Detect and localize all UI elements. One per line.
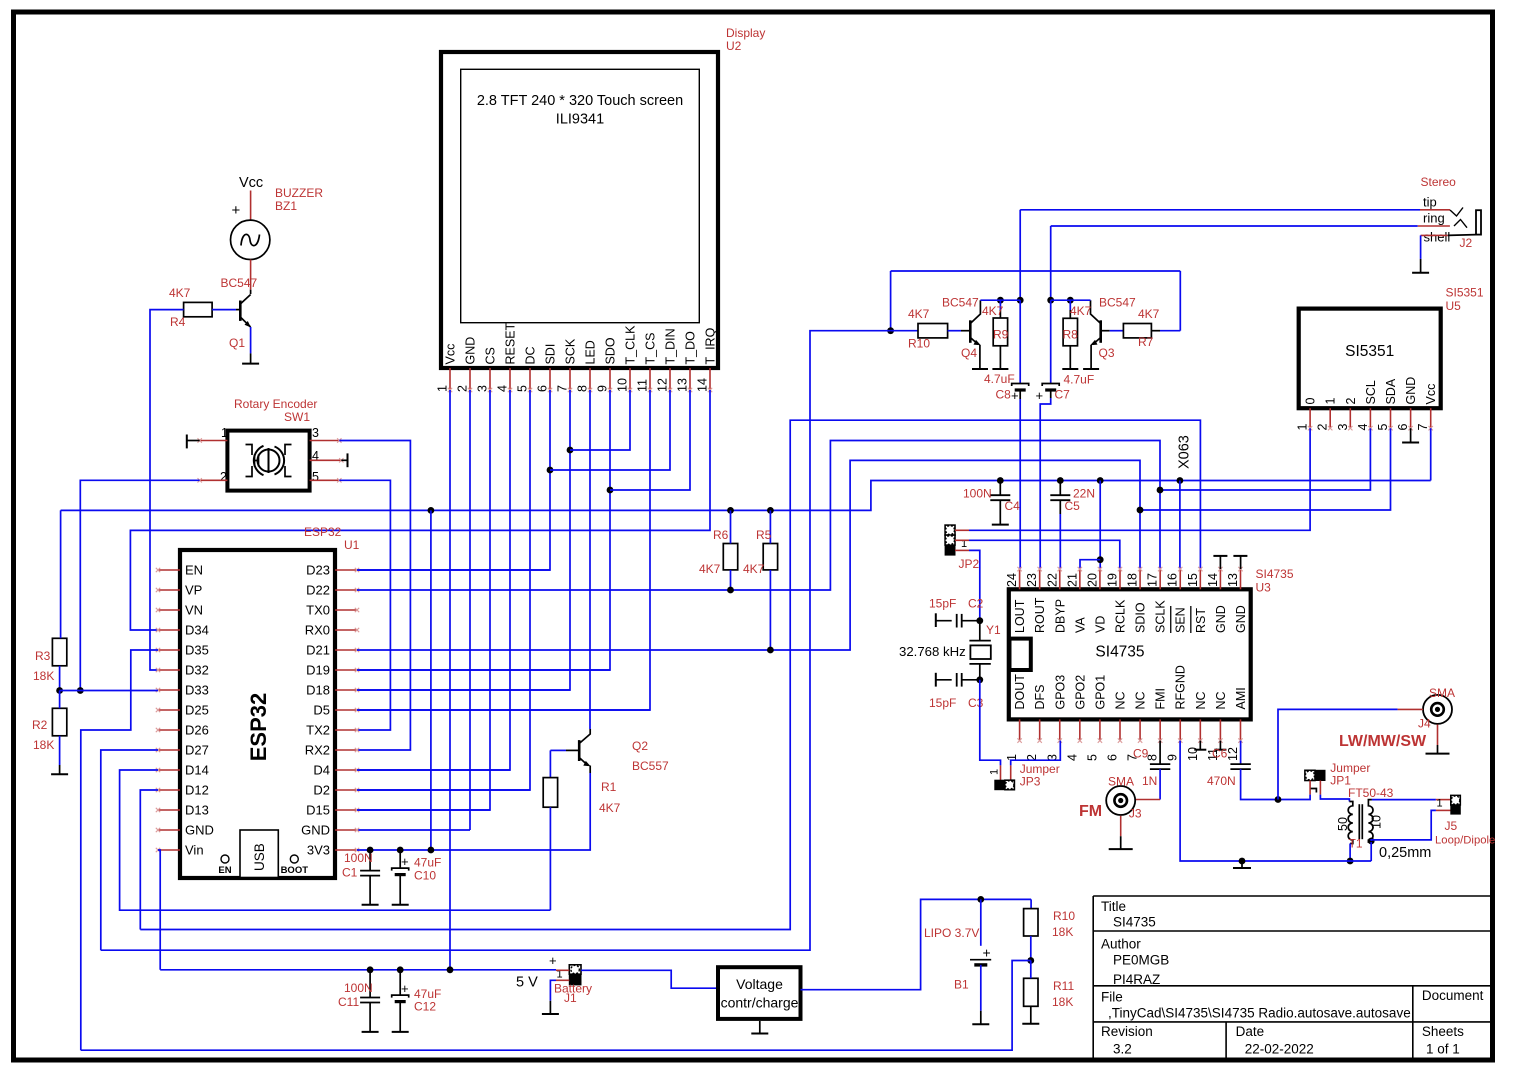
wire GPO3 to JP3 pin2 bbox=[1011, 741, 1061, 766]
display pin 6 SDI bbox=[549, 368, 551, 390]
svg-text:24: 24 bbox=[1005, 573, 1019, 587]
svg-text:4: 4 bbox=[1065, 754, 1079, 761]
svg-text:TX0: TX0 bbox=[306, 603, 330, 618]
ESP32 left pin GND bbox=[158, 829, 180, 831]
svg-text:4: 4 bbox=[1356, 424, 1370, 431]
svg-text:File: File bbox=[1101, 990, 1123, 1005]
wire 5V bus bbox=[160, 969, 556, 971]
svg-text:SW1: SW1 bbox=[284, 410, 310, 424]
svg-text:4.7uF: 4.7uF bbox=[1064, 373, 1095, 387]
svg-text:2: 2 bbox=[1344, 398, 1358, 405]
svg-text:SCL: SCL bbox=[1364, 380, 1378, 404]
capacitor C5 bbox=[1059, 481, 1061, 496]
wire JP1 right pin to T1 primary bbox=[1320, 795, 1349, 802]
svg-text:VP: VP bbox=[185, 583, 202, 598]
display pin 2 GND bbox=[469, 368, 471, 390]
svg-text:GND: GND bbox=[301, 823, 330, 838]
svg-text:D13: D13 bbox=[185, 803, 209, 818]
svg-text:2: 2 bbox=[220, 470, 227, 484]
SI5351 pin 6 GND bbox=[1410, 408, 1412, 428]
svg-text:+: + bbox=[1011, 388, 1019, 403]
wire display CS to D15 bbox=[357, 390, 490, 810]
svg-text:T_IRQ: T_IRQ bbox=[704, 327, 718, 364]
svg-text:ROUT: ROUT bbox=[1033, 597, 1047, 633]
svg-text:C5: C5 bbox=[1065, 499, 1081, 513]
capacitor C4 bbox=[999, 481, 1001, 496]
svg-text:C1: C1 bbox=[342, 866, 358, 880]
wire R5 to D21 row bbox=[769, 570, 771, 650]
ground below J2 bbox=[1420, 259, 1422, 273]
wire R3 to divider mid bbox=[59, 666, 61, 691]
SI4735 pin 14 GND bbox=[1219, 569, 1221, 589]
wire Q4 collector bus bbox=[980, 299, 1020, 301]
wire Vcc to buzzer bbox=[250, 191, 252, 221]
jumper JP1 bbox=[1305, 770, 1315, 780]
wire D27 to Q4 base net bbox=[101, 750, 158, 950]
svg-text:R1: R1 bbox=[601, 780, 617, 794]
ground below R9 bbox=[992, 368, 1008, 370]
svg-text:2: 2 bbox=[456, 385, 470, 392]
svg-text:D21: D21 bbox=[306, 643, 330, 658]
svg-text:Document: Document bbox=[1422, 988, 1484, 1003]
svg-text:9: 9 bbox=[596, 385, 610, 392]
svg-text:1: 1 bbox=[436, 385, 450, 392]
svg-text:GPO2: GPO2 bbox=[1073, 675, 1087, 710]
svg-text:R11: R11 bbox=[1053, 979, 1074, 993]
junction divider mid bbox=[56, 687, 63, 694]
svg-text:12: 12 bbox=[656, 378, 670, 392]
svg-text:13: 13 bbox=[676, 378, 690, 392]
junction T1 secondary bottom bbox=[1368, 838, 1375, 845]
svg-text:DC: DC bbox=[524, 346, 538, 364]
ESP32 left pin D14 bbox=[158, 769, 180, 771]
svg-text:D32: D32 bbox=[185, 663, 209, 678]
svg-text:GND: GND bbox=[185, 823, 214, 838]
svg-text:NC: NC bbox=[1194, 691, 1208, 709]
wire buzzer to Q1 collector bbox=[250, 260, 252, 290]
SI4735 pin 21 VA bbox=[1079, 569, 1081, 589]
svg-text:ESP32: ESP32 bbox=[246, 693, 271, 762]
svg-text:D19: D19 bbox=[306, 663, 330, 678]
wire JP2 pin2 to RCLK bbox=[969, 540, 1120, 569]
svg-text:BC547: BC547 bbox=[942, 296, 979, 310]
svg-text:SI4735: SI4735 bbox=[1095, 644, 1144, 661]
svg-text:BC557: BC557 bbox=[632, 759, 669, 773]
wire D35 to battery sense line bbox=[81, 650, 158, 1050]
svg-text:D33: D33 bbox=[185, 683, 209, 698]
SI5351 pin 3 2 bbox=[1349, 408, 1351, 428]
svg-text:C4: C4 bbox=[1005, 499, 1021, 513]
SI4735 pin 12 AMI bbox=[1239, 719, 1241, 740]
display pin 4 RESET bbox=[509, 368, 511, 390]
svg-text:T_CS: T_CS bbox=[644, 333, 658, 365]
svg-text:DOUT: DOUT bbox=[1013, 674, 1027, 710]
svg-text:SMA: SMA bbox=[1108, 775, 1134, 789]
ESP32 right pin 3V3 bbox=[335, 849, 357, 851]
transistor Q3 bbox=[1101, 330, 1110, 332]
wire RFGND bus bbox=[1180, 741, 1371, 861]
capacitor C12 bbox=[399, 970, 401, 995]
wire Q4/Q3 base bus bbox=[891, 270, 1181, 272]
svg-text:LOUT: LOUT bbox=[1013, 599, 1027, 633]
svg-text:15pF: 15pF bbox=[929, 696, 956, 710]
wire D23 to SDI column bbox=[357, 569, 550, 571]
svg-text:U5: U5 bbox=[1446, 299, 1462, 313]
svg-text:R8: R8 bbox=[1063, 328, 1079, 342]
ESP32 right pin TX0 bbox=[335, 609, 357, 611]
svg-text:SDA: SDA bbox=[1384, 378, 1398, 404]
SMA connector J4 bbox=[1423, 695, 1452, 724]
svg-text:R10: R10 bbox=[1053, 909, 1075, 923]
svg-text:6: 6 bbox=[536, 385, 550, 392]
svg-text:T_DIN: T_DIN bbox=[664, 328, 678, 364]
svg-text:GND: GND bbox=[1234, 605, 1248, 633]
wire SI5351 SCL to SCLK net bbox=[1160, 428, 1370, 490]
display pin 11 T_CS bbox=[649, 368, 651, 390]
junction SCK/T_CLK bbox=[567, 447, 574, 454]
svg-text:SI4735: SI4735 bbox=[1113, 915, 1156, 930]
ESP32 right pin D5 bbox=[335, 709, 357, 711]
display pin 1 Vcc bbox=[449, 368, 451, 390]
junction 3V3/C4 bbox=[997, 477, 1004, 484]
svg-text:D15: D15 bbox=[306, 803, 330, 818]
ESP32 right pin D2 bbox=[335, 789, 357, 791]
ESP32 left pin D26 bbox=[158, 729, 180, 731]
transformer T1 FT50-43 bbox=[1348, 802, 1353, 844]
ESP32 right pin TX2 bbox=[335, 729, 357, 731]
capacitor C6 bbox=[1240, 741, 1242, 765]
svg-text:Stereo: Stereo bbox=[1421, 175, 1457, 189]
ground bars above SI4735 GND pins bbox=[1213, 555, 1227, 557]
wire ESP32 GND right to GND column bbox=[357, 829, 470, 831]
svg-text:14: 14 bbox=[696, 378, 710, 392]
SI4735 pin 1 DOUT bbox=[1019, 719, 1021, 740]
wire display SCK to D18 bbox=[357, 390, 570, 690]
SI4735 pin 18 SDIO bbox=[1139, 569, 1141, 589]
svg-text:D35: D35 bbox=[185, 643, 209, 658]
display pin 9 SDO bbox=[609, 368, 611, 390]
svg-text:USB: USB bbox=[252, 843, 267, 871]
svg-text:BC547: BC547 bbox=[221, 276, 258, 290]
resistor R3 bbox=[52, 638, 66, 666]
SI4735 pin 19 RCLK bbox=[1119, 569, 1121, 589]
SI5351 U5 body bbox=[1299, 309, 1441, 409]
capacitor C8 bbox=[1019, 300, 1021, 383]
SI4735 pin 4 GPO2 bbox=[1079, 719, 1081, 740]
wire C5 to DBYP bbox=[1059, 500, 1061, 514]
wire D19 to SDO column bbox=[357, 669, 610, 671]
resistor R9 bbox=[999, 300, 1001, 310]
svg-text:,TinyCad\SI4735\SI4735 Radio.a: ,TinyCad\SI4735\SI4735 Radio.autosave.au… bbox=[1108, 1006, 1411, 1021]
wire crystal bottom to JP3 pin1 bbox=[980, 680, 1001, 766]
no-connect bars below NC pins 10 11 bbox=[1199, 741, 1201, 750]
svg-text:ILI9341: ILI9341 bbox=[556, 112, 604, 128]
wire D2 to DC column bbox=[357, 789, 530, 791]
SI4735 pin 2 DFS bbox=[1039, 719, 1041, 740]
junction 3V3/SEN bbox=[1177, 477, 1184, 484]
wire T_DO to SDO bbox=[610, 390, 690, 490]
svg-text:B1: B1 bbox=[954, 978, 969, 992]
wire 3V3 row bbox=[357, 773, 590, 850]
svg-text:Display: Display bbox=[726, 26, 765, 40]
svg-text:J2: J2 bbox=[1460, 236, 1473, 250]
svg-text:4K7: 4K7 bbox=[699, 562, 721, 576]
ESP32 left pin VN bbox=[158, 609, 180, 611]
svg-text:100N: 100N bbox=[344, 851, 373, 865]
SI4735 pin 13 GND bbox=[1239, 569, 1241, 589]
svg-text:16: 16 bbox=[1166, 573, 1180, 587]
junction 5V/display Vcc bbox=[447, 966, 454, 973]
svg-text:LIPO 3.7V: LIPO 3.7V bbox=[924, 926, 979, 940]
wire T1 primary to RFGND bbox=[1349, 844, 1351, 862]
JP2 pin stubs bbox=[955, 529, 969, 531]
svg-text:+: + bbox=[983, 945, 991, 961]
capacitor C1 bbox=[369, 850, 371, 871]
ground below SI5351 GND bbox=[1410, 428, 1412, 442]
svg-text:R6: R6 bbox=[713, 528, 729, 542]
ground below Q3 bbox=[1083, 368, 1099, 370]
ESP32 right pin D4 bbox=[335, 769, 357, 771]
SMA connector J3 bbox=[1106, 786, 1135, 815]
transistor Q2 bbox=[578, 740, 581, 761]
svg-text:SDI: SDI bbox=[544, 344, 558, 365]
ground below R8 bbox=[1062, 368, 1078, 370]
wire display SDO to D19 bbox=[357, 390, 610, 670]
wire D21 to R5 and SDIO net bbox=[357, 460, 1140, 650]
svg-text:4K7: 4K7 bbox=[743, 562, 765, 576]
junction 3V3/C1 bbox=[367, 847, 374, 854]
svg-text:19: 19 bbox=[1106, 573, 1120, 587]
svg-text:C6: C6 bbox=[1212, 747, 1228, 761]
svg-text:SCLK: SCLK bbox=[1154, 600, 1168, 633]
svg-text:Q4: Q4 bbox=[961, 346, 977, 360]
wire R1 to D14 line bbox=[549, 807, 551, 910]
svg-text:5: 5 bbox=[312, 470, 319, 484]
wire display T_IRQ to D34 bbox=[130, 390, 710, 630]
wire SI5351 Vcc to 3V3 bbox=[1430, 428, 1432, 480]
svg-text:C7: C7 bbox=[1055, 388, 1071, 402]
svg-text:2.8 TFT 240 * 320 Touch screen: 2.8 TFT 240 * 320 Touch screen bbox=[477, 93, 683, 109]
ESP32 right pin D15 bbox=[335, 809, 357, 811]
svg-text:+: + bbox=[549, 953, 557, 968]
svg-text:9: 9 bbox=[1166, 754, 1180, 761]
display U2 body bbox=[441, 52, 718, 368]
svg-text:10: 10 bbox=[1370, 815, 1384, 829]
svg-text:GND: GND bbox=[1404, 377, 1418, 405]
svg-text:D14: D14 bbox=[185, 763, 209, 778]
svg-text:R10: R10 bbox=[908, 337, 930, 351]
wire J5 pin2 to T1 secondary bottom bbox=[1371, 810, 1436, 841]
SI4735 pin 10 NC bbox=[1199, 719, 1201, 740]
svg-text:4K7: 4K7 bbox=[908, 307, 930, 321]
wire JP1 left pin to AM node bbox=[1304, 795, 1310, 800]
wire divider mid to D35 sense line bbox=[81, 961, 1031, 1051]
wire T_DIN to SDI bbox=[550, 390, 670, 470]
svg-text:SI5351: SI5351 bbox=[1345, 343, 1394, 360]
wire D12 to RST net bbox=[140, 790, 158, 930]
ESP32 left pin D12 bbox=[158, 789, 180, 791]
ESP32 right pin D23 bbox=[335, 569, 357, 571]
junction 3V3/VD column bbox=[1097, 477, 1104, 484]
display pin 7 SCK bbox=[569, 368, 571, 390]
resistor R11 18K bbox=[1024, 978, 1038, 1006]
svg-text:Revision: Revision bbox=[1101, 1024, 1153, 1039]
svg-text:Vcc: Vcc bbox=[239, 175, 263, 191]
svg-text:15: 15 bbox=[1186, 573, 1200, 587]
SI4735 pin 9 RFGND bbox=[1179, 719, 1181, 740]
ESP32 right pin D22 bbox=[335, 589, 357, 591]
ESP32 right pin D21 bbox=[335, 649, 357, 651]
wire display RESET to D4 bbox=[357, 390, 510, 770]
ESP32 right pin D19 bbox=[335, 669, 357, 671]
svg-text:D23: D23 bbox=[306, 563, 330, 578]
wire J3 to ground bbox=[1120, 816, 1122, 836]
svg-text:SEN: SEN bbox=[1174, 607, 1188, 633]
junction Q4 base / D27 net bbox=[887, 327, 894, 334]
svg-text:R7: R7 bbox=[1138, 335, 1154, 349]
display pin 14 T_IRQ bbox=[709, 368, 711, 390]
svg-text:SDIO: SDIO bbox=[1134, 602, 1148, 633]
svg-text:100N: 100N bbox=[963, 487, 992, 501]
display pin 5 DC bbox=[529, 368, 531, 390]
svg-text:NC: NC bbox=[1214, 691, 1228, 709]
svg-text:VA: VA bbox=[1073, 617, 1087, 633]
junction D21/R5 bbox=[767, 647, 774, 654]
svg-text:J3: J3 bbox=[1129, 807, 1142, 821]
wire D27 column to Q4 base node bbox=[101, 331, 891, 951]
display pin 12 T_DIN bbox=[669, 368, 671, 390]
wire AM node to J4 bbox=[1278, 709, 1398, 799]
ESP32 left pin D32 bbox=[158, 669, 180, 671]
capacitor C11 bbox=[369, 970, 371, 998]
ESP32 left pin D27 bbox=[158, 749, 180, 751]
svg-text:3V3: 3V3 bbox=[307, 843, 330, 858]
junction 3V3/R5 bbox=[767, 507, 774, 514]
SI5351 pin 5 SDA bbox=[1390, 408, 1392, 428]
wire R2 to ground bbox=[59, 736, 61, 765]
ground below R11 bbox=[1030, 1006, 1032, 1023]
junction 5V/C11 bbox=[367, 966, 374, 973]
wire display DC to D2 bbox=[357, 390, 530, 790]
wire Q2 base to R1 bbox=[550, 749, 566, 751]
buzzer BZ1 bbox=[231, 220, 270, 259]
wire R4 to D32 column bbox=[150, 310, 184, 670]
wire T1 secondary bottom to RFGND bbox=[1370, 842, 1372, 861]
svg-text:R2: R2 bbox=[32, 718, 48, 732]
wire display T_CS to D5 bbox=[357, 390, 650, 710]
ESP32 right pin RX0 bbox=[335, 629, 357, 631]
ESP32 left pin D35 bbox=[158, 649, 180, 651]
ESP32 left pin EN bbox=[158, 569, 180, 571]
svg-text:3: 3 bbox=[1336, 424, 1350, 431]
svg-text:C11: C11 bbox=[338, 995, 359, 1009]
svg-text:Voltage: Voltage bbox=[736, 976, 783, 992]
SI5351 pin 1 0 bbox=[1309, 408, 1311, 428]
wire C8 to LOUT bbox=[1019, 390, 1021, 399]
svg-text:4.7uF: 4.7uF bbox=[984, 372, 1015, 386]
svg-text:BOOT: BOOT bbox=[281, 865, 309, 876]
svg-text:SI5351: SI5351 bbox=[1446, 286, 1484, 300]
wire D18 to SCK column bbox=[357, 689, 570, 691]
svg-text:J1: J1 bbox=[564, 991, 577, 1005]
ESP32 left pin D34 bbox=[158, 629, 180, 631]
ESP32 left pin VP bbox=[158, 589, 180, 591]
title block frame bbox=[1093, 896, 1491, 1060]
wire voltage converter to LIPO bus bbox=[801, 899, 1032, 989]
junction SCL/SCLK bbox=[1157, 487, 1164, 494]
ground below R2 bbox=[59, 765, 61, 774]
svg-text:GND: GND bbox=[1214, 605, 1228, 633]
display pin 8 LED bbox=[589, 368, 591, 390]
ground below voltage converter bbox=[759, 1021, 761, 1034]
svg-text:4K7: 4K7 bbox=[169, 286, 191, 300]
junction AM node bbox=[1275, 796, 1282, 803]
svg-text:11: 11 bbox=[636, 379, 650, 392]
SI4735 pin 8 FMI bbox=[1159, 719, 1161, 740]
wire RST to D12 net bbox=[140, 420, 1200, 929]
wire J1 pin2 to ground bbox=[550, 980, 556, 1001]
ESP32 U1 body bbox=[180, 550, 335, 878]
svg-text:D5: D5 bbox=[313, 703, 330, 718]
resistor R1 bbox=[543, 778, 557, 808]
svg-text:BZ1: BZ1 bbox=[275, 199, 297, 213]
svg-text:Date: Date bbox=[1236, 1024, 1265, 1039]
svg-text:47uF: 47uF bbox=[414, 856, 441, 870]
svg-text:50: 50 bbox=[1336, 817, 1350, 831]
voltage converter module bbox=[718, 967, 801, 1019]
transistor Q1 bbox=[239, 301, 242, 321]
resistor R10 18K bbox=[1030, 899, 1032, 908]
junction 3V3/C10 bbox=[397, 847, 404, 854]
svg-text:Author: Author bbox=[1101, 937, 1141, 952]
svg-text:C8: C8 bbox=[996, 388, 1012, 402]
svg-text:T_CLK: T_CLK bbox=[624, 325, 638, 365]
capacitor C7 bbox=[1050, 300, 1052, 383]
svg-text:D12: D12 bbox=[185, 783, 209, 798]
svg-text:RESET: RESET bbox=[504, 322, 518, 364]
svg-text:7: 7 bbox=[1416, 424, 1430, 431]
junction battery divider mid bbox=[1027, 957, 1034, 964]
ground below Q4 bbox=[972, 368, 988, 370]
capacitor C10 bbox=[399, 850, 401, 868]
svg-text:U3: U3 bbox=[1256, 581, 1272, 595]
capacitor C2 bbox=[956, 614, 958, 628]
wire display SDI to D23 bbox=[357, 390, 550, 570]
svg-text:R9: R9 bbox=[993, 328, 1009, 342]
svg-text:0: 0 bbox=[1304, 398, 1318, 405]
crystal Y1 32.768 kHz bbox=[979, 621, 981, 641]
resistor R10 4K7 bbox=[891, 330, 918, 332]
SI5351 pin 4 SCL bbox=[1369, 408, 1371, 428]
svg-text:shell: shell bbox=[1424, 230, 1451, 245]
svg-text:AMI: AMI bbox=[1234, 687, 1248, 709]
wire SEN column bbox=[1179, 481, 1181, 570]
wire 3V3 to VD and VA bbox=[1099, 481, 1101, 570]
svg-text:Q1: Q1 bbox=[229, 336, 245, 350]
jumper JP3 bbox=[1000, 765, 1002, 780]
svg-text:12: 12 bbox=[1226, 747, 1240, 761]
svg-text:5 V: 5 V bbox=[516, 975, 538, 991]
svg-text:T_DO: T_DO bbox=[684, 331, 698, 365]
wire display LED to Q2 collector bbox=[589, 390, 591, 729]
wire D22 to R6 and SCLK net bbox=[357, 441, 1160, 591]
svg-text:NC: NC bbox=[1114, 691, 1128, 709]
wire R10 to divider mid bbox=[1030, 936, 1032, 961]
connector J5 bbox=[1436, 799, 1451, 801]
svg-text:4: 4 bbox=[496, 385, 510, 392]
svg-text:18K: 18K bbox=[1052, 925, 1073, 939]
svg-text:18K: 18K bbox=[33, 738, 54, 752]
